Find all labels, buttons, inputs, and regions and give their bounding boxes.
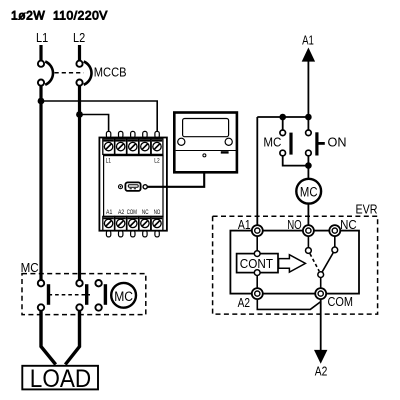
svg-text:NO: NO: [287, 217, 302, 232]
wire L2 junction to EOCR terminal L1: [80, 115, 109, 133]
actuation arrow (CONT drives contact): [279, 255, 306, 272]
junction below ON: [305, 162, 312, 169]
breaker MCCB pole 1: [38, 61, 53, 86]
svg-text:EVR: EVR: [356, 202, 378, 217]
wire A2 terminal to COM drop: [257, 299, 320, 309]
wire L1 junction to EOCR terminal L2: [41, 101, 157, 132]
contactor MC linkage (dashed): [49, 294, 91, 296]
breaker MCCB linkage (dashed): [55, 72, 84, 74]
changeover contact: NC side pin: [332, 247, 338, 253]
wire COM drop to A2 arrow: [320, 299, 322, 352]
terminal NO: [303, 225, 314, 236]
svg-text:A1: A1: [106, 209, 113, 216]
display unit body: [174, 113, 237, 173]
junction top rail / ON branch: [305, 114, 312, 121]
LOAD box: [22, 365, 98, 393]
wire L1 bus (below breaker): [39, 86, 42, 281]
node A1 arrow (up): [302, 48, 315, 62]
wire L2 pole to LOAD: [65, 311, 79, 365]
svg-text:CONT: CONT: [240, 256, 273, 271]
svg-text:MC: MC: [21, 260, 39, 275]
CONT top pin circle: [254, 251, 260, 257]
wire MC contact bottom link: [283, 156, 309, 166]
changeover contact: NC side lead: [334, 236, 336, 247]
display unit window: [183, 119, 229, 137]
contactor MC main contact pole 2: [76, 280, 86, 311]
svg-text:NC: NC: [340, 217, 357, 232]
svg-text:L2: L2: [73, 30, 85, 45]
svg-text:ON: ON: [328, 134, 347, 149]
svg-text:NC: NC: [142, 209, 149, 216]
svg-text:L1: L1: [106, 158, 112, 165]
svg-text:A2: A2: [238, 295, 250, 310]
svg-text:LOAD: LOAD: [30, 365, 91, 393]
changeover contact: pivot pin: [318, 272, 324, 278]
changeover contact: moving arm to NC (solid): [322, 252, 333, 272]
EOCR top terminal stems: [106, 131, 159, 138]
EOCR top terminal row (screw terminals): [103, 139, 163, 155]
svg-text:A1: A1: [302, 33, 314, 48]
junction top rail / MC branch: [279, 114, 286, 121]
EVR inner case: [230, 231, 359, 294]
display unit latch mark: [221, 151, 229, 153]
breaker MCCB pole 2: [76, 61, 91, 86]
terminal A2: [252, 288, 263, 299]
EOCR comm connector: [125, 182, 140, 191]
changeover contact: NO side pin: [306, 248, 312, 254]
EOCR face panel: [104, 156, 163, 217]
contactor MC enclosure (dashed): [22, 274, 146, 315]
EOCR comm port left ring: [119, 185, 123, 189]
EOCR bottom terminal stems: [106, 231, 159, 237]
wire ON to coil: [307, 156, 309, 179]
svg-text:A2: A2: [315, 364, 328, 379]
wire pivot to COM terminal: [320, 278, 322, 289]
wire L2 bus (below breaker): [78, 86, 81, 281]
svg-text:MC: MC: [114, 289, 133, 304]
contactor MC contact pole 3: [95, 280, 105, 311]
junction on L1 bus: [38, 98, 45, 105]
display unit button left: [178, 138, 185, 145]
svg-text:A1: A1: [238, 217, 251, 232]
relay EOCR body: [99, 138, 166, 231]
display unit separator line: [176, 150, 237, 152]
EOCR bottom terminal row (screw terminals): [103, 216, 163, 230]
terminal COM: [315, 288, 326, 299]
svg-text:1ø2W 110/220V: 1ø2W 110/220V: [11, 8, 108, 22]
pushbutton ON: [306, 117, 325, 156]
svg-text:COM: COM: [127, 209, 137, 216]
display unit button right: [225, 138, 232, 145]
wire A1 drop: [307, 61, 309, 117]
EOCR bottom pin labels A1 A2 COM NC NO: [106, 209, 160, 216]
wire control top rail: [257, 116, 308, 118]
svg-text:MC: MC: [300, 184, 318, 199]
wire comm cable to display: [147, 172, 204, 187]
relay EVR enclosure (dashed): [213, 216, 378, 314]
EVR internal line A1-A2: [256, 236, 258, 289]
junction on L2 bus: [76, 111, 83, 118]
svg-text:MCCB: MCCB: [94, 65, 127, 80]
wire coil to EVR NO terminal: [307, 204, 309, 225]
coil MC (power section): [111, 283, 136, 308]
terminal A1: [252, 225, 263, 236]
display unit small hole: [203, 154, 206, 157]
wire L1 pole to LOAD: [41, 311, 56, 365]
svg-text:L1: L1: [36, 30, 48, 45]
changeover contact: moving arm to NO (dashed): [310, 254, 319, 271]
svg-text:MC: MC: [263, 134, 281, 149]
svg-text:A2: A2: [118, 209, 125, 216]
contact MC auxiliary (NO): [280, 117, 291, 156]
svg-text:L2: L2: [154, 158, 160, 165]
node A2 arrow (down): [314, 350, 327, 364]
wire L2 feeder (top): [78, 45, 81, 60]
CONT element box: [237, 254, 278, 273]
coil MC (control section): [296, 179, 321, 204]
terminal NC: [329, 225, 340, 236]
EOCR comm port right ring: [143, 185, 147, 189]
CONT bottom pin circle: [254, 270, 260, 276]
contactor MC main contact pole 1: [38, 280, 49, 311]
svg-text:COM: COM: [328, 294, 354, 309]
svg-text:NO: NO: [154, 209, 161, 216]
wire left branch to EVR A1: [256, 117, 258, 225]
changeover contact: NO side lead: [307, 236, 309, 248]
wire L1 feeder (top): [39, 45, 42, 60]
